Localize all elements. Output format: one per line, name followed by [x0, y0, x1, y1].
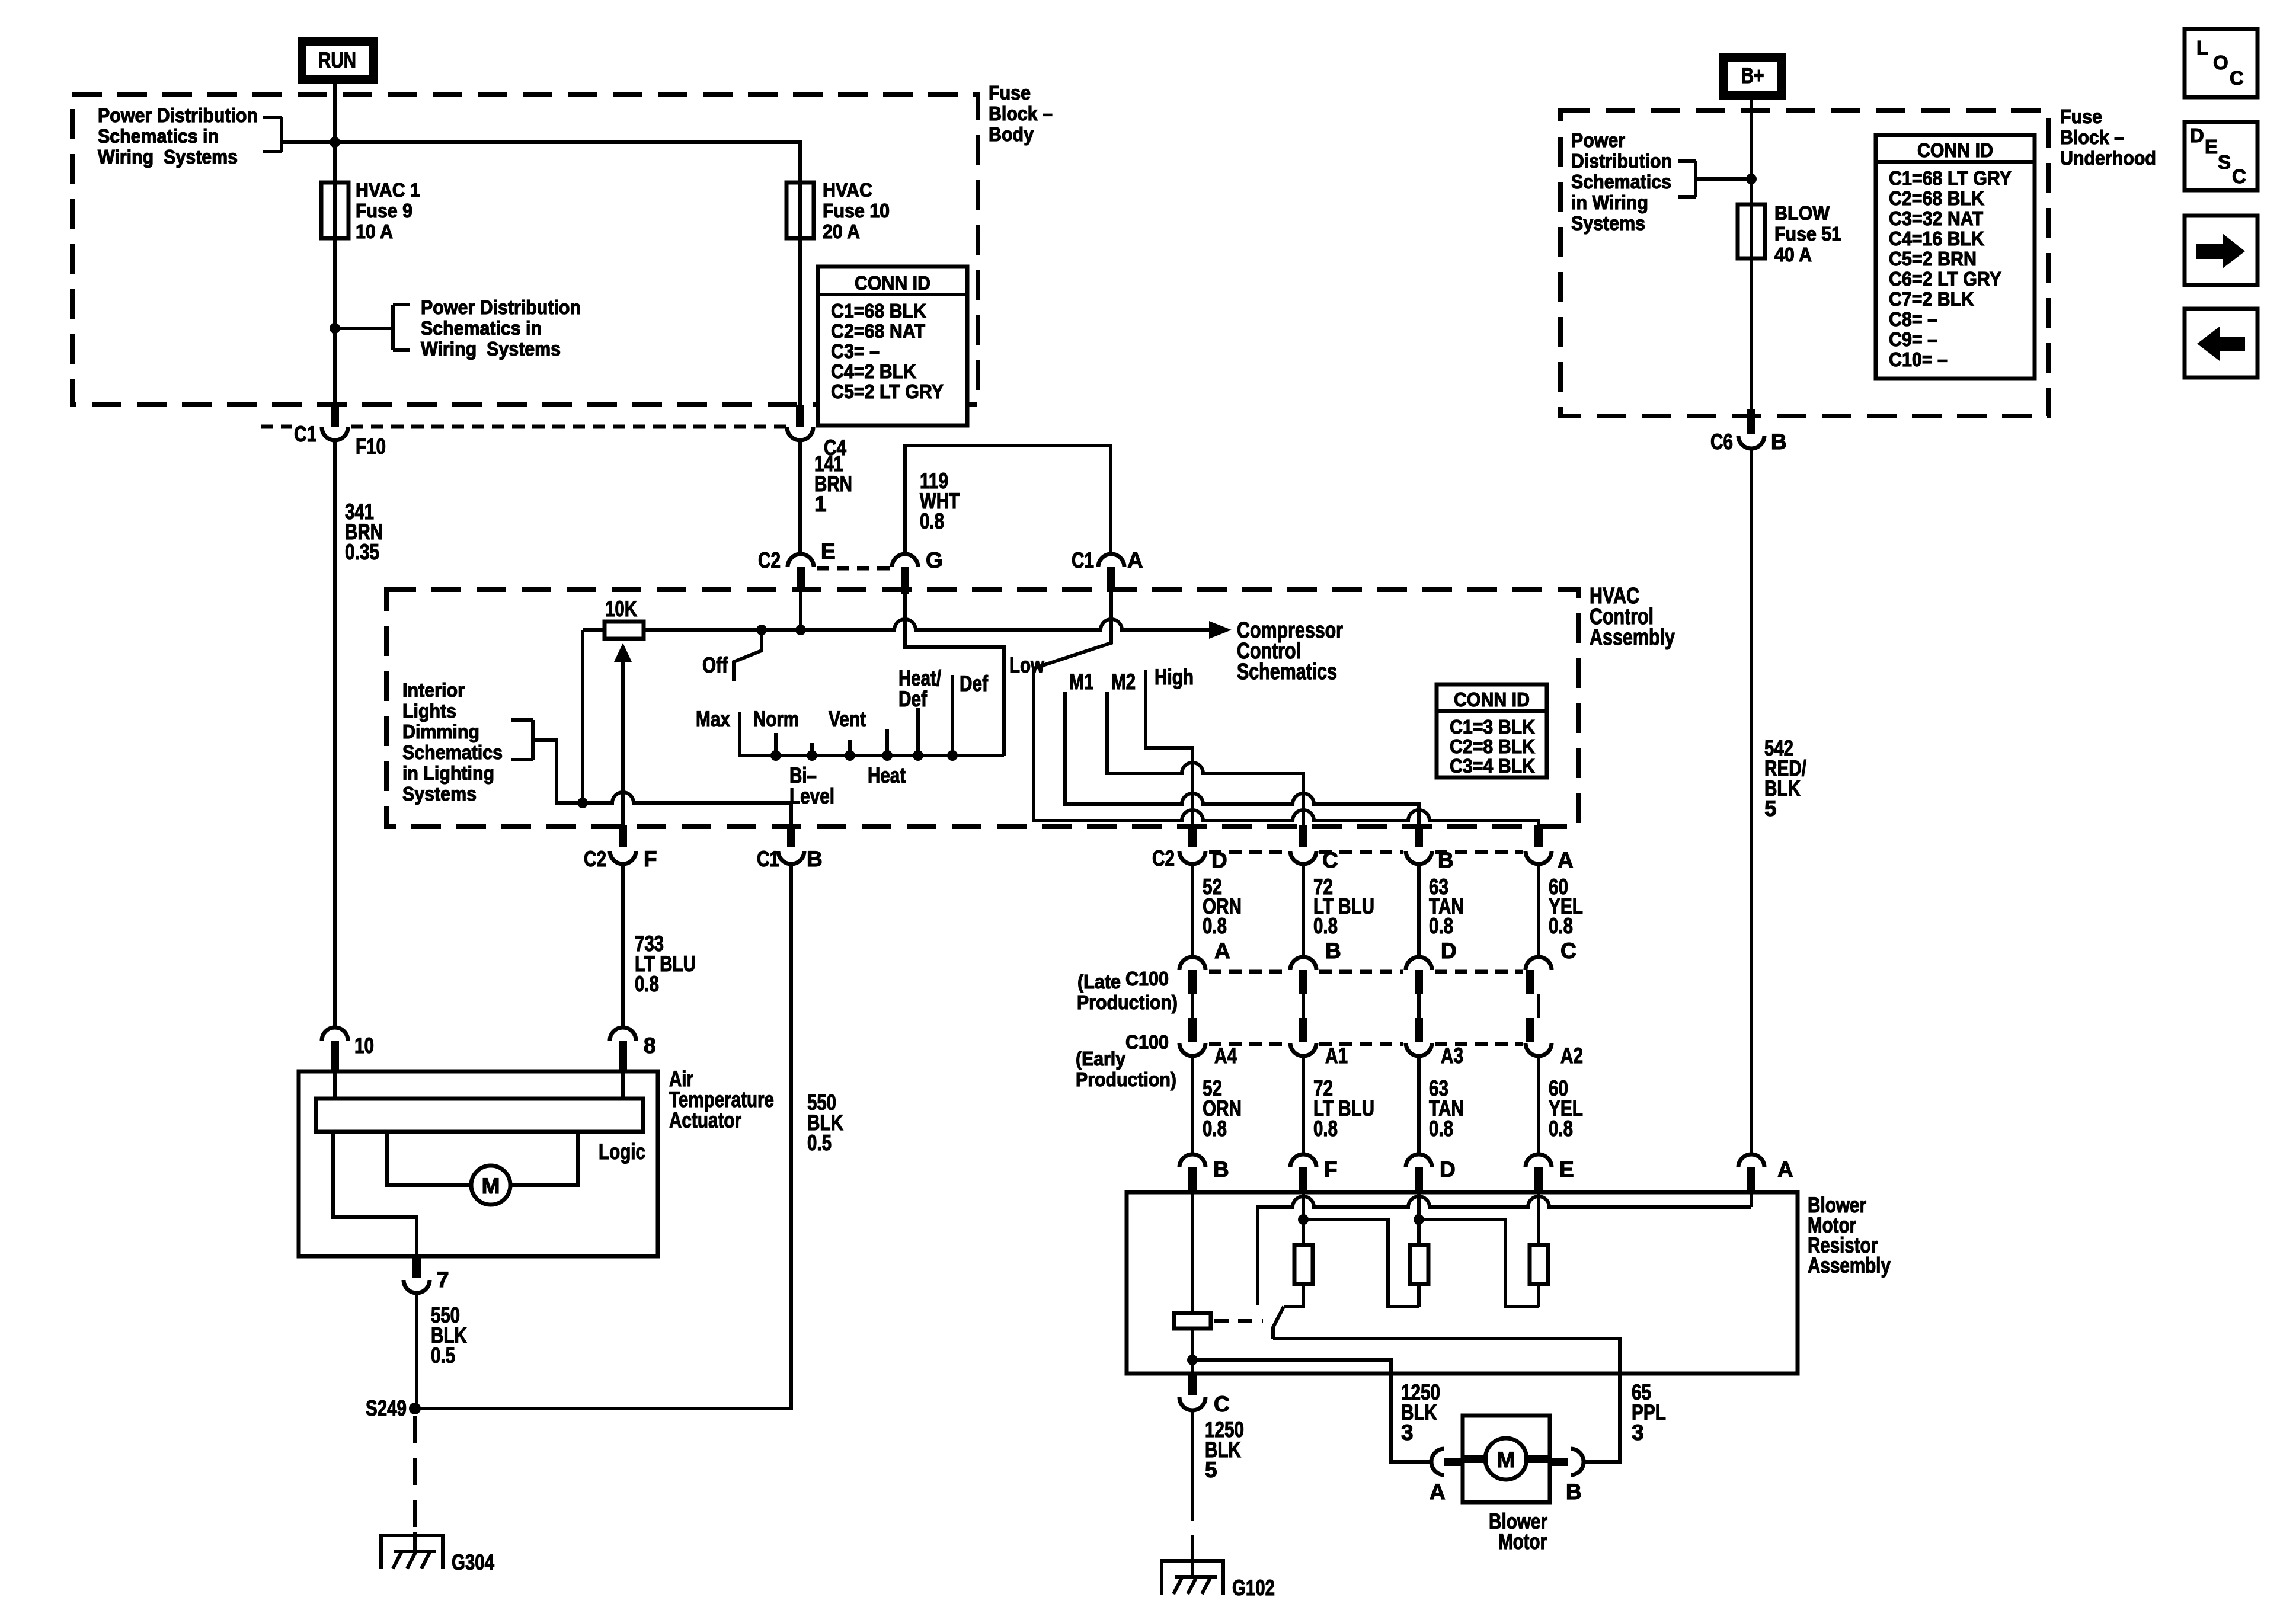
wire B junction to blower A — [1192, 1360, 1431, 1462]
svg-text:Wiring Systems: Wiring Systems — [421, 338, 561, 360]
motor M blower — [1463, 1438, 1550, 1480]
svg-text:B: B — [1213, 1157, 1229, 1182]
junction node — [330, 323, 340, 334]
svg-text:C4=2 BLK: C4=2 BLK — [831, 360, 916, 382]
wire label 550 BLK 0.5 (left) — [431, 1303, 467, 1368]
logic bar — [316, 1099, 643, 1132]
CONN ID table underhood — [1876, 135, 2035, 379]
svg-text:Fuse 51: Fuse 51 — [1774, 223, 1841, 245]
svg-text:0.8: 0.8 — [1313, 1116, 1338, 1141]
svg-text:Schematics in: Schematics in — [98, 125, 219, 147]
wire E into switch bus — [799, 591, 802, 630]
connector pin A on resistor assembly — [1738, 1154, 1793, 1192]
connector C4 — [787, 405, 846, 460]
switch Off — [702, 630, 762, 681]
svg-text:C2=8 BLK: C2=8 BLK — [1450, 735, 1535, 757]
svg-text:C6: C6 — [1710, 430, 1733, 454]
wire loop 119 WHT 0.8 from G to C1 A — [905, 446, 1111, 554]
junction node F tap — [1298, 1214, 1309, 1225]
label Power Distribution (left) — [98, 104, 258, 168]
label HVAC Control Assembly — [1590, 584, 1675, 650]
junction node on RUN wire — [330, 137, 340, 148]
svg-text:10: 10 — [354, 1033, 374, 1058]
bracket for Power Distribution left — [263, 117, 282, 152]
wire E into resistor chain — [1537, 1192, 1540, 1245]
svg-text:1: 1 — [814, 492, 827, 516]
wire B through relay coil — [1191, 1192, 1194, 1374]
dashed connector line E to G — [817, 566, 890, 571]
wire label 1250 BLK 3 — [1401, 1380, 1440, 1445]
wire M1 to connector B with hops — [1065, 670, 1419, 825]
wires down to resistor assembly — [1192, 1056, 1539, 1154]
wire label 733 LT BLU 0.8 — [635, 932, 696, 996]
connector C100 early production row pins A4 A1 A3 A2 — [1179, 1018, 1583, 1068]
junction node 10K leg — [577, 798, 588, 808]
svg-text:C4=16 BLK: C4=16 BLK — [1889, 228, 1984, 249]
wire fuse 51 to C6 — [1750, 258, 1753, 409]
svg-text:C5=2 BRN: C5=2 BRN — [1889, 248, 1977, 270]
svg-text:C3=32 NAT: C3=32 NAT — [1889, 207, 1983, 229]
DESC box — [2185, 122, 2257, 190]
compressor control arrow — [1209, 621, 1232, 639]
wire F into resistor chain — [1302, 1192, 1305, 1245]
label Power Distribution (right) — [1571, 129, 1672, 234]
svg-text:D: D — [1441, 939, 1457, 963]
svg-text:Assembly: Assembly — [1590, 625, 1675, 650]
svg-text:0.35: 0.35 — [345, 540, 379, 564]
svg-text:Underhood: Underhood — [2060, 147, 2156, 169]
svg-text:A: A — [1430, 1480, 1446, 1504]
junction node B wire — [1187, 1355, 1198, 1365]
connector pin C below resistor box — [1179, 1374, 1230, 1416]
svg-text:0.5: 0.5 — [431, 1343, 455, 1368]
fuse block underhood dashed box — [1560, 111, 2049, 416]
dashed wire S249 to G304 — [413, 1416, 417, 1532]
svg-text:S249: S249 — [366, 1396, 407, 1420]
fuse HVAC 1 Fuse 9 10A — [321, 179, 420, 242]
svg-text:M1: M1 — [1069, 670, 1093, 694]
svg-text:0.8: 0.8 — [1313, 914, 1338, 938]
svg-text:E: E — [1559, 1157, 1574, 1182]
CONN ID table body — [818, 267, 967, 425]
svg-text:D: D — [2190, 124, 2204, 146]
svg-text:0.8: 0.8 — [1203, 1116, 1227, 1141]
svg-text:Schematics in: Schematics in — [421, 317, 542, 339]
bracket for interior lights dimming — [511, 720, 533, 760]
svg-text:C6=2 LT GRY: C6=2 LT GRY — [1889, 268, 2001, 290]
svg-text:C1=68 LT GRY: C1=68 LT GRY — [1889, 167, 2012, 189]
wire label 119 WHT 0.8 — [920, 469, 960, 533]
wire label 542 RED/BLK 5 — [1764, 736, 1806, 821]
connector pin G — [892, 548, 943, 594]
wire C6 to resistor assembly A — [1750, 449, 1753, 1154]
svg-text:Power: Power — [1571, 129, 1625, 151]
connector C2 pin E — [758, 539, 836, 591]
svg-text:Low: Low — [1009, 653, 1044, 677]
svg-text:Body: Body — [989, 123, 1034, 145]
svg-text:B: B — [1566, 1480, 1582, 1504]
svg-text:G102: G102 — [1232, 1576, 1275, 1600]
svg-text:A3: A3 — [1441, 1044, 1463, 1068]
fuse BLOW Fuse 51 40A — [1738, 202, 1841, 265]
svg-text:C7=2 BLK: C7=2 BLK — [1889, 288, 1974, 310]
wire R1 bottom to switch contact — [1284, 1284, 1303, 1307]
svg-text:Vent: Vent — [829, 707, 866, 731]
resistor R1 — [1294, 1245, 1313, 1284]
svg-text:0.8: 0.8 — [1203, 914, 1227, 938]
svg-text:(Late: (Late — [1077, 971, 1121, 993]
label Compressor Control Schematics — [1237, 618, 1343, 684]
connector pin A blower motor — [1430, 1449, 1463, 1504]
HVAC control assembly dashed box — [386, 590, 1579, 827]
svg-text:5: 5 — [1764, 796, 1777, 821]
svg-text:G304: G304 — [452, 1550, 494, 1574]
blower motor box — [1463, 1416, 1550, 1502]
svg-text:Norm: Norm — [753, 707, 799, 731]
junction node D tap — [1414, 1214, 1424, 1225]
connector C1 pin F10 — [261, 405, 786, 459]
svg-text:M: M — [1497, 1448, 1515, 1472]
node RUN (ignition feed) — [298, 37, 378, 84]
svg-text:C1: C1 — [757, 847, 779, 871]
wire label 1250 BLK 5 — [1205, 1417, 1244, 1482]
label (Early C100 Production) — [1076, 1031, 1176, 1090]
svg-text:0.8: 0.8 — [1549, 1116, 1573, 1141]
svg-text:Power Distribution: Power Distribution — [421, 296, 581, 318]
svg-text:C: C — [1214, 1392, 1230, 1416]
label Air Temperature Actuator — [669, 1067, 774, 1132]
connector C1 pin B below HVAC box — [757, 825, 823, 871]
wire label 141 BRN 1 — [814, 452, 852, 516]
label Interior Lights Dimming Schematics in Lighting Systems — [402, 679, 503, 805]
wires down to C100 late — [1192, 864, 1539, 957]
svg-text:Power Distribution: Power Distribution — [98, 104, 258, 126]
svg-text:C3= –: C3= – — [831, 340, 880, 362]
wire C to G102 — [1191, 1410, 1194, 1493]
svg-text:A1: A1 — [1325, 1044, 1348, 1068]
label Fuse Block Underhood — [2060, 105, 2156, 169]
wire RUN to fuse 9 — [333, 84, 337, 183]
svg-text:HVAC 1: HVAC 1 — [356, 179, 420, 201]
svg-text:Level: Level — [789, 784, 834, 808]
wire C4 to C2 E — [798, 441, 802, 554]
wire M2 to connector C with hop — [1107, 670, 1303, 825]
connector row C2 D C B A — [1152, 825, 1574, 872]
svg-text:C9= –: C9= – — [1889, 328, 1937, 350]
svg-text:Fuse: Fuse — [2060, 105, 2102, 127]
svg-text:0.8: 0.8 — [1549, 914, 1573, 938]
svg-text:3: 3 — [1632, 1420, 1644, 1445]
svg-text:M2: M2 — [1111, 670, 1136, 694]
svg-text:A: A — [1127, 548, 1143, 572]
wire dimming bracket to C1 B with hop over wiper wire — [533, 740, 791, 825]
wires pins into logic bar — [335, 1071, 623, 1099]
svg-text:Heat: Heat — [868, 763, 906, 788]
svg-text:Def: Def — [960, 671, 989, 696]
svg-text:Schematics: Schematics — [1571, 171, 1671, 193]
svg-text:0.8: 0.8 — [1429, 1116, 1453, 1141]
wire bracket to B+ wire — [1696, 177, 1751, 181]
ground G304 — [379, 1535, 494, 1574]
svg-text:Block –: Block – — [2060, 126, 2124, 148]
wire pin 7 to S249 — [415, 1293, 418, 1409]
svg-text:40 A: 40 A — [1774, 244, 1812, 265]
resistor R3 — [1530, 1245, 1548, 1284]
wire G to mode comb riser — [905, 594, 1004, 756]
svg-text:Fuse 9: Fuse 9 — [356, 200, 412, 222]
resistor R2 — [1410, 1245, 1428, 1284]
svg-text:Lights: Lights — [402, 700, 456, 722]
svg-text:E: E — [2205, 136, 2218, 158]
wire labels 52 ORN 0.8 / 72 LT BLU 0.8 / 63 TAN 0.8 / 60 YEL 0.8 (lower) — [1203, 1076, 1583, 1141]
svg-text:C1=3 BLK: C1=3 BLK — [1450, 716, 1535, 738]
fuse HVAC Fuse 10 20A — [786, 179, 890, 242]
svg-text:C: C — [2232, 165, 2246, 187]
LOC box — [2185, 29, 2257, 97]
svg-text:CONN ID: CONN ID — [855, 272, 930, 294]
svg-text:S: S — [2218, 151, 2231, 173]
label Blower Motor Resistor Assembly — [1808, 1193, 1891, 1278]
wire A entry to top bus — [1750, 1192, 1753, 1207]
wire label 550 BLK 0.5 (right) — [807, 1090, 843, 1155]
resistor 10K potentiometer — [605, 597, 644, 639]
svg-text:Block –: Block – — [989, 103, 1053, 124]
wire Low to connector A with hops — [1034, 668, 1539, 825]
svg-text:L: L — [2196, 37, 2208, 59]
svg-text:5: 5 — [1205, 1458, 1217, 1482]
svg-text:C: C — [2230, 67, 2244, 89]
wire C1 to actuator pin 10 — [333, 441, 337, 1028]
svg-text:G: G — [926, 548, 943, 572]
splice S249 — [366, 1396, 421, 1420]
wire fuse 9 to C1 — [333, 238, 337, 405]
svg-text:A2: A2 — [1560, 1044, 1583, 1068]
svg-text:E: E — [821, 539, 836, 564]
relay coil box — [1174, 1313, 1211, 1329]
wire D into resistor chain — [1417, 1192, 1421, 1245]
svg-text:Schematics: Schematics — [402, 741, 503, 763]
svg-text:B: B — [807, 847, 823, 871]
svg-text:A4: A4 — [1214, 1044, 1237, 1068]
label (Late C100 Production) — [1077, 968, 1178, 1013]
right arrow box — [2185, 216, 2257, 285]
svg-text:A: A — [1214, 939, 1230, 963]
connector pin B blower motor — [1550, 1449, 1584, 1504]
label Fuse Block Body — [989, 82, 1053, 145]
left arrow box — [2185, 309, 2257, 377]
svg-text:0.8: 0.8 — [920, 509, 944, 533]
dashed relay link — [1214, 1319, 1263, 1323]
svg-text:F: F — [644, 847, 657, 871]
bracket for Power Distribution mid — [393, 305, 410, 350]
svg-text:10 A: 10 A — [356, 220, 393, 242]
svg-text:Max: Max — [696, 707, 730, 731]
connector pin 10 — [322, 1028, 374, 1071]
wire High to connector D — [1146, 665, 1194, 825]
connector C2 pin F below HVAC box — [584, 825, 657, 871]
svg-text:CONN ID: CONN ID — [1917, 139, 1993, 161]
junction node off-switch tap — [756, 625, 767, 635]
wire bracket to RUN wire — [335, 327, 393, 330]
wire label 65 PPL 3 — [1632, 1380, 1666, 1445]
svg-text:Off: Off — [702, 653, 728, 677]
blower switch Low arm from C1 A wire — [1009, 591, 1111, 677]
wire bracket to fuse 10 branch — [282, 142, 800, 183]
svg-text:O: O — [2213, 52, 2228, 73]
svg-text:C2: C2 — [758, 548, 781, 572]
svg-text:C5=2 LT GRY: C5=2 LT GRY — [831, 380, 944, 402]
wire B+ to fuse 51 — [1750, 100, 1753, 204]
ground G102 — [1160, 1561, 1275, 1600]
label Blower Motor — [1489, 1509, 1547, 1554]
svg-text:(Early: (Early — [1076, 1048, 1126, 1070]
svg-text:Dimming: Dimming — [402, 721, 479, 742]
svg-text:7: 7 — [437, 1267, 449, 1292]
wire fuse 10 to C4 — [798, 238, 802, 405]
connector pin 8 — [610, 1028, 656, 1071]
svg-text:C1=68 BLK: C1=68 BLK — [831, 300, 926, 322]
svg-text:High: High — [1155, 665, 1194, 689]
svg-text:BLOW: BLOW — [1774, 202, 1830, 224]
svg-text:Production): Production) — [1077, 991, 1178, 1013]
connector C6 pin B — [1710, 409, 1787, 454]
svg-text:C: C — [1560, 939, 1576, 963]
mode selector comb — [740, 675, 1004, 761]
inline wires between C100 halves — [1192, 994, 1539, 1018]
top bus with hops over E D F wires, down to high contact — [1258, 1196, 1751, 1305]
svg-text:C2: C2 — [1152, 846, 1175, 870]
CONN ID table HVAC — [1437, 684, 1547, 777]
svg-text:RUN: RUN — [318, 48, 356, 72]
svg-text:Systems: Systems — [402, 783, 477, 805]
svg-text:Motor: Motor — [1498, 1529, 1547, 1554]
svg-text:Distribution: Distribution — [1571, 150, 1672, 172]
svg-text:C1: C1 — [1072, 548, 1094, 572]
svg-text:C2=68 NAT: C2=68 NAT — [831, 320, 925, 342]
svg-text:B: B — [1325, 939, 1341, 963]
svg-text:Interior: Interior — [402, 679, 465, 701]
svg-text:B+: B+ — [1741, 63, 1764, 88]
svg-text:B: B — [1771, 430, 1787, 454]
svg-text:Fuse: Fuse — [989, 82, 1031, 104]
svg-text:C2: C2 — [584, 847, 606, 871]
svg-text:HVAC: HVAC — [823, 179, 872, 201]
main bus with hops over G and A wires, to compressor arrow — [583, 619, 1210, 630]
svg-text:Actuator: Actuator — [669, 1108, 741, 1132]
svg-text:C2=68 BLK: C2=68 BLK — [1889, 187, 1984, 209]
label Power Distribution (mid) — [421, 296, 581, 360]
bypass F tap to R2 bottom — [1303, 1219, 1419, 1307]
mode labels — [696, 666, 989, 808]
svg-text:0.8: 0.8 — [1429, 914, 1453, 938]
svg-text:C10= –: C10= – — [1889, 348, 1948, 370]
connector C100 late production row pins A B D C — [1179, 939, 1576, 994]
svg-text:8: 8 — [644, 1033, 656, 1058]
svg-text:3: 3 — [1401, 1420, 1414, 1445]
svg-text:C100: C100 — [1125, 1031, 1169, 1053]
svg-text:C100: C100 — [1125, 968, 1169, 990]
bypass D tap to R3 bottom — [1419, 1219, 1539, 1307]
svg-text:0.5: 0.5 — [807, 1131, 832, 1155]
wire label 341 BRN 0.35 — [345, 500, 383, 564]
wire C1 B to splice S249 — [415, 864, 791, 1409]
wire 10K left leg down to dimming junction — [581, 630, 584, 803]
fuse block body dashed box — [72, 95, 978, 405]
svg-text:Logic: Logic — [599, 1140, 645, 1164]
resistor assembly box — [1127, 1192, 1798, 1374]
junction node E bus — [795, 625, 806, 635]
svg-text:in Lighting: in Lighting — [402, 762, 494, 784]
wiper arrow of 10K — [614, 643, 632, 825]
junction node — [1746, 174, 1757, 184]
svg-text:Def: Def — [898, 687, 928, 711]
svg-text:A: A — [1558, 848, 1574, 872]
svg-text:F: F — [1324, 1157, 1338, 1182]
connector row B F D E on resistor assembly — [1179, 1154, 1574, 1192]
wire R3 bottom — [1537, 1284, 1540, 1307]
svg-text:Production): Production) — [1076, 1068, 1176, 1090]
svg-text:CONN ID: CONN ID — [1454, 689, 1530, 710]
motor M inside actuator — [387, 1132, 578, 1205]
svg-text:in Wiring: in Wiring — [1571, 191, 1648, 213]
wire labels 52 ORN 0.8 / 72 LT BLU 0.8 / 63 TAN 0.8 / 60 YEL 0.8 (upper) — [1203, 875, 1583, 938]
svg-text:Systems: Systems — [1571, 212, 1645, 234]
air temperature actuator box — [299, 1071, 658, 1256]
connector pin 7 — [404, 1256, 449, 1293]
svg-text:C3=4 BLK: C3=4 BLK — [1450, 755, 1535, 777]
svg-text:D: D — [1440, 1157, 1456, 1182]
svg-text:10K: 10K — [605, 597, 637, 621]
svg-text:C1: C1 — [294, 422, 316, 446]
svg-text:Fuse 10: Fuse 10 — [823, 200, 890, 222]
svg-text:A: A — [1777, 1157, 1793, 1182]
switch arm high/low — [1273, 1307, 1284, 1339]
wire R2 bottom — [1417, 1284, 1421, 1307]
svg-text:0.8: 0.8 — [635, 972, 659, 996]
connector C1 pin A — [1072, 548, 1143, 591]
bracket for Power Distribution right — [1678, 161, 1696, 197]
svg-text:F10: F10 — [356, 434, 386, 459]
svg-text:Assembly: Assembly — [1808, 1253, 1891, 1278]
svg-text:Wiring Systems: Wiring Systems — [98, 146, 238, 168]
svg-text:C8= –: C8= – — [1889, 308, 1937, 330]
wire C2 F to actuator pin 8 — [621, 864, 625, 1028]
svg-text:20 A: 20 A — [823, 220, 860, 242]
svg-text:Schematics: Schematics — [1237, 660, 1337, 684]
switch output to blower B — [1273, 1339, 1620, 1462]
node B+ (battery feed) — [1719, 53, 1786, 100]
wire logic to pin 7 — [333, 1132, 417, 1256]
svg-text:M: M — [482, 1174, 500, 1198]
